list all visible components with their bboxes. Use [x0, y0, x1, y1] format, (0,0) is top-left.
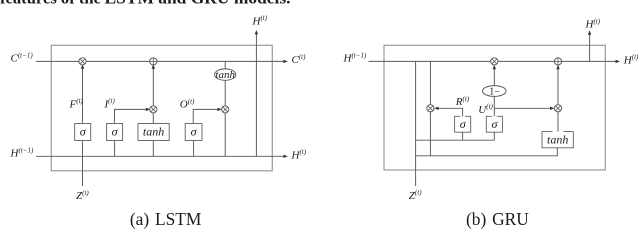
svg-text:(b) GRU: (b) GRU	[466, 209, 529, 229]
wire: bottom bus to tanh	[416, 148, 558, 156]
multiplier (forget)	[79, 58, 86, 65]
wire: arrowhead H(t) right	[283, 155, 287, 158]
wire: O gate elbow to mult	[193, 109, 220, 123]
svg-text:R(t): R(t)	[455, 95, 470, 108]
sigma box R	[455, 116, 471, 132]
svg-text:H(t): H(t)	[252, 14, 268, 27]
wire: H branch to R-mult	[429, 61, 431, 155]
wire: H state line	[369, 60, 617, 62]
svg-text:σ: σ	[460, 117, 467, 131]
LSTM outer box	[51, 45, 272, 171]
tanh box	[138, 124, 169, 141]
svg-text:tanh: tanh	[143, 125, 164, 139]
adder	[150, 58, 157, 65]
svg-text:tanh: tanh	[547, 133, 568, 147]
wire: H/Z vertical + Z input	[415, 61, 417, 186]
wire: R gate output to mult	[436, 108, 463, 116]
svg-text:features of the: features of the	[0, 0, 101, 8]
sigma box F	[75, 124, 91, 141]
svg-text:H(t−1): H(t−1)	[10, 146, 34, 159]
wire: arrowhead H(t) right	[616, 60, 620, 63]
svg-text:(a) LSTM: (a) LSTM	[130, 209, 202, 229]
svg-text:H(t): H(t)	[585, 17, 601, 30]
wire: arrowhead H(t) top	[255, 30, 258, 34]
wire: arrowhead H(t) top	[588, 30, 591, 34]
multiplier (output)	[222, 106, 229, 113]
svg-text:U(t): U(t)	[478, 103, 493, 116]
wire: C line to tanh ellipse down through mult to H line	[224, 61, 226, 156]
wire: tanh box up through mult to plus	[152, 66, 154, 124]
wire: F gate to mult	[82, 66, 84, 124]
tanh box GRU	[542, 132, 573, 148]
wire: tanh up through mult to plus	[557, 66, 559, 131]
sigma box U	[486, 116, 502, 132]
wire: H hidden-state line	[36, 155, 284, 157]
adder	[554, 58, 561, 65]
svg-text:C(t): C(t)	[292, 53, 307, 66]
wire: 1-minus to mult on H line	[493, 66, 495, 85]
wire: H up output	[255, 33, 257, 157]
wire: U gate output up and to mult right	[494, 97, 553, 117]
svg-text:H(t): H(t)	[291, 148, 307, 161]
wire: I gate elbow to mult	[115, 109, 150, 123]
GRU outer box	[384, 45, 605, 170]
1-minus ellipse	[483, 86, 507, 98]
wire: C cell-state line	[36, 60, 284, 62]
wire: Z input line	[82, 140, 84, 186]
svg-text:Z(t): Z(t)	[76, 189, 89, 202]
svg-text:σ: σ	[491, 117, 498, 131]
svg-text:tanh: tanh	[215, 69, 235, 81]
svg-text:H(t): H(t)	[623, 53, 639, 66]
multiplier (reset)	[427, 105, 434, 112]
multiplier (1-U on H)	[491, 58, 498, 65]
wire: arrowhead C(t)	[283, 60, 287, 63]
sigma box I	[107, 124, 123, 141]
svg-text:Z(t): Z(t)	[409, 189, 422, 202]
wire: gate stubs to H line	[115, 140, 194, 156]
sigma box O	[185, 124, 202, 141]
wire: gate input bus	[416, 132, 495, 140]
svg-text:F(t): F(t)	[69, 97, 84, 110]
svg-text:O(t): O(t)	[180, 97, 195, 110]
svg-text:C(t−1): C(t−1)	[11, 51, 34, 64]
multiplier (input)	[150, 106, 157, 113]
svg-text:I(t): I(t)	[104, 97, 116, 110]
multiplier (U on tanh)	[554, 105, 561, 112]
svg-text:1−: 1−	[489, 86, 500, 97]
svg-text:H(t−1): H(t−1)	[343, 51, 367, 64]
tanh ellipse	[215, 69, 236, 81]
svg-text:LSTM and GRU models.: LSTM and GRU models.	[105, 0, 291, 8]
wire: H up output	[589, 33, 591, 61]
